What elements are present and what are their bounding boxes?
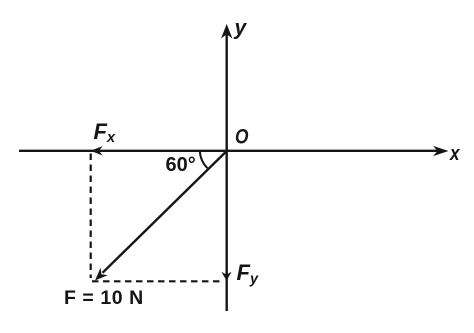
dashed horizontal projection line — [92, 280, 224, 282]
component Fy arrowhead on negative y-axis — [221, 272, 231, 281]
angle arc at origin — [200, 151, 208, 168]
x-axis (wire) — [19, 146, 449, 156]
svg-text:60°: 60° — [166, 154, 196, 176]
svg-text:F = 10 N: F = 10 N — [64, 287, 144, 309]
svg-text:x: x — [449, 143, 460, 165]
svg-text:y: y — [234, 17, 248, 40]
dashed vertical projection line — [90, 154, 92, 279]
y-axis (wire) — [221, 24, 232, 311]
component Fx arrowhead on negative x-axis — [91, 146, 103, 155]
svg-text:O: O — [235, 125, 249, 149]
force vector F — [95, 151, 227, 281]
